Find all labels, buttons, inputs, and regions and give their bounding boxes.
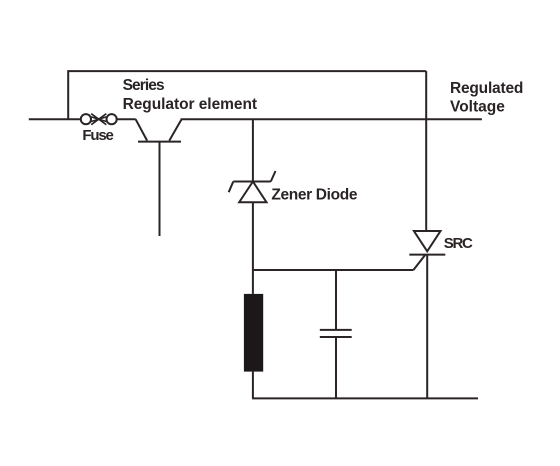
wire: node to SCR gate horizontal [253,269,414,271]
label Fuse [82,127,113,144]
wire: top feedback loop (left vertical and top horizontal) [68,71,426,119]
SCR (SRC) thyristor [409,231,445,270]
svg-text:Regulator element: Regulator element [123,96,257,113]
svg-text:SRC: SRC [444,235,473,252]
zener diode [229,171,276,202]
wire: main rail from transistor to output [181,118,482,120]
svg-text:Voltage: Voltage [450,98,505,115]
svg-text:Regulated: Regulated [450,80,523,97]
label Zener Diode [271,186,357,203]
wire: SCR anode from top rail [425,71,427,231]
svg-text:Fuse: Fuse [82,127,113,144]
label SRC [444,235,473,252]
fuse [81,114,117,125]
label Series Regulator element [123,77,257,113]
wire: SCR cathode to bottom rail [426,255,428,399]
label Regulated Voltage [450,80,523,115]
wire: bottom rail [252,397,478,399]
wire: input segment left of fuse [29,118,81,120]
capacitor [320,270,352,398]
svg-text:Series: Series [123,77,164,94]
svg-text:Zener Diode: Zener Diode [271,186,357,203]
wire: fuse to transistor emitter [116,118,135,120]
transistor (series regulator element) [136,119,182,236]
wire: zener to resistor node [252,202,254,294]
wire: rail down to zener [252,119,254,181]
wire: resistor to bottom rail [252,372,254,399]
resistor (filled) [244,294,263,372]
